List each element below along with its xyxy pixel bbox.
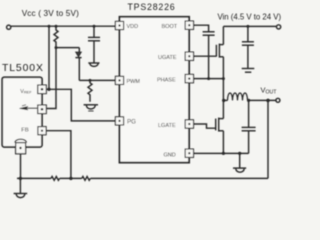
svg-text:VDD: VDD	[127, 24, 139, 30]
wire Vcc rail	[11, 25, 116, 27]
inductor L1	[223, 99, 227, 101]
junction ground drop	[238, 152, 241, 155]
junction Q2 source	[222, 152, 225, 155]
ground G5	[19, 178, 21, 193]
capacitor C4 output	[248, 100, 250, 127]
pin PHASE	[185, 74, 193, 82]
svg-text:UGATE: UGATE	[158, 55, 177, 61]
IC U1 body	[120, 17, 190, 163]
pin PG	[115, 117, 123, 125]
junction SW node	[222, 77, 225, 80]
capacitor C2 bootstrap	[203, 31, 215, 33]
terminal Vcc	[7, 25, 11, 29]
wire VREF to PG	[46, 89, 115, 121]
IC U2 TL500x body	[2, 77, 42, 147]
svg-text:Vin (4.5 V to 24 V): Vin (4.5 V to 24 V)	[218, 13, 282, 22]
wire bottom feedback rail	[17, 177, 51, 179]
svg-text:TPS28226: TPS28226	[128, 2, 176, 12]
junction at divider tap	[69, 177, 72, 180]
pin LGATE	[185, 120, 193, 128]
wire UGATE	[194, 55, 217, 57]
junction on Vcc rail at x49	[48, 25, 51, 28]
wire rail mid	[60, 177, 82, 179]
ground G4	[239, 153, 241, 168]
transistor Q2 low-side MOSFET	[215, 119, 217, 131]
junction bottom-left	[19, 177, 22, 180]
capacitor C1 Vcc decoupling	[93, 26, 95, 37]
wire FB to divider tap	[46, 131, 71, 179]
junction SW-inductor	[222, 99, 225, 102]
junction Vin rail	[246, 25, 249, 28]
pin BOOT	[185, 21, 193, 29]
svg-text:PHASE: PHASE	[157, 78, 176, 84]
arrow symbol inside U2	[25, 107, 37, 109]
wire PHASE	[194, 78, 224, 80]
junction output cap tap	[247, 99, 250, 102]
resistor R1 from Vcc rail	[46, 26, 58, 108]
resistor R3	[51, 177, 59, 181]
wire Vin rail	[223, 25, 276, 27]
pin PWM	[115, 76, 123, 84]
junction PWM net	[89, 79, 92, 82]
svg-text:BOOT: BOOT	[162, 24, 178, 30]
svg-text:Vcc ( 3V to 5V): Vcc ( 3V to 5V)	[22, 9, 79, 18]
terminal Vin	[277, 25, 281, 29]
pin VREF of U2	[38, 85, 47, 94]
ground G3	[242, 68, 255, 70]
svg-text:LGATE: LGATE	[158, 123, 176, 129]
capacitor C3 input	[247, 26, 249, 41]
pin GND of U2 (bottom, open-collector)	[15, 139, 27, 142]
diode D1	[78, 48, 80, 52]
junction on Vcc rail at x94	[93, 25, 96, 28]
junction Vout down tap	[266, 99, 270, 103]
svg-text:GND: GND	[164, 152, 176, 158]
pin UGATE	[185, 52, 193, 60]
junction on Vcc rail at x56	[55, 25, 58, 28]
wire Vcc to Vref net	[48, 26, 50, 89]
junction boot/phase	[207, 77, 210, 80]
svg-text:TL500X: TL500X	[2, 63, 44, 74]
wire rail right	[90, 177, 268, 179]
ground G2	[84, 104, 98, 106]
pin GND	[185, 149, 193, 157]
svg-text:PWM: PWM	[127, 79, 141, 85]
wire inductor to Vout	[248, 99, 277, 101]
transistor Q1 high-side MOSFET	[215, 45, 217, 57]
svg-text:FB: FB	[21, 128, 29, 134]
wire GND bus	[194, 152, 249, 154]
wire LGATE	[194, 124, 216, 128]
wire branch to diode	[56, 47, 79, 49]
resistor R2 to ground	[88, 80, 92, 101]
svg-text:VREF: VREF	[20, 89, 32, 95]
resistor R4	[82, 177, 90, 181]
svg-text:PG: PG	[127, 119, 136, 126]
pin VDD	[115, 21, 123, 29]
wire PWM net	[79, 79, 115, 81]
junction Vcc/Vref	[47, 88, 50, 91]
pin FB of U2	[38, 127, 46, 135]
wire BOOT	[194, 25, 209, 31]
wire Vout feedback down	[267, 100, 269, 178]
junction diode branch	[55, 46, 58, 49]
terminal Vout	[276, 98, 280, 102]
wire SW down	[222, 79, 224, 101]
ground G1	[88, 62, 99, 64]
wire U2 bottom pin to rail	[20, 154, 22, 178]
pin COMP of U2	[38, 105, 47, 114]
